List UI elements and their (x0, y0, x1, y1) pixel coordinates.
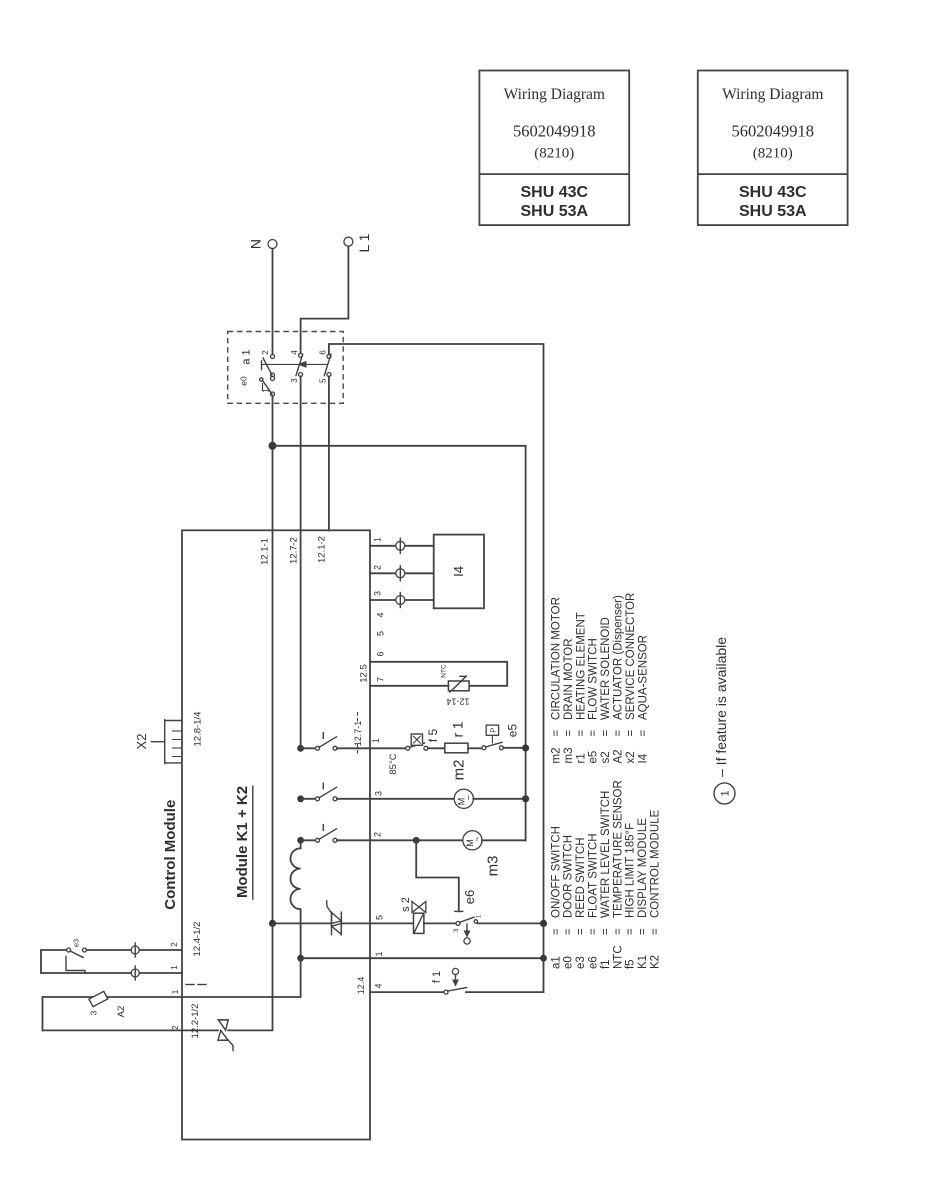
triac T2 on A2 return (218, 1020, 233, 1051)
aqua-sensor I4 box (434, 535, 484, 609)
svg-text:Wiring Diagram: Wiring Diagram (722, 86, 823, 103)
svg-text:=: = (600, 928, 612, 935)
svg-text:12.1-1: 12.1-1 (259, 538, 270, 565)
svg-text:6: 6 (376, 651, 386, 656)
node m3 row / e6 branch (413, 837, 420, 844)
wire row m3 (370, 839, 463, 841)
wire N down to A2 return row (228, 923, 272, 1030)
svg-text:2: 2 (261, 350, 270, 355)
net label 12.4 / pin 4 (row f1) (356, 977, 384, 995)
svg-text:A2: A2 (613, 749, 625, 763)
label Module K1 + K2 (234, 786, 253, 899)
svg-text:f5: f5 (625, 959, 637, 969)
reed switch e3 loop (41, 939, 182, 973)
terminal L1 (344, 233, 372, 252)
svg-text:HIGH LIMIT 185°F: HIGH LIMIT 185°F (625, 823, 637, 918)
svg-text:e6: e6 (462, 890, 477, 904)
wire a1 row to rail A (301, 957, 544, 959)
connector pin on wire 3 (396, 593, 405, 608)
svg-text:7: 7 (376, 677, 386, 682)
svg-text:3: 3 (90, 1010, 99, 1015)
door switch f1 (431, 968, 467, 994)
svg-text:CIRCULATION MOTOR: CIRCULATION MOTOR (551, 597, 563, 720)
svg-text:1: 1 (371, 738, 381, 743)
svg-text:1: 1 (170, 965, 179, 970)
svg-text:1: 1 (477, 914, 483, 918)
svg-text:r 1: r 1 (451, 722, 466, 738)
wire s2 to e6 contact (424, 922, 456, 924)
svg-text:12.7-2: 12.7-2 (289, 537, 300, 564)
svg-text:f1: f1 (600, 959, 612, 969)
node N s2 row (269, 920, 276, 927)
svg-text:SHU 53A: SHU 53A (739, 203, 807, 220)
net label 12.7-1 dashed (353, 712, 363, 755)
wire pin 3 to I4 (370, 599, 434, 601)
svg-text:m2: m2 (551, 748, 563, 764)
wire pole6 up and right to rail A (329, 344, 544, 992)
svg-text:f 5: f 5 (426, 729, 440, 743)
circulation motor m2 (451, 760, 474, 809)
svg-text:e3: e3 (575, 956, 587, 969)
float switch e6 contact (454, 914, 483, 944)
svg-text:a 1: a 1 (241, 349, 253, 364)
wire e6 contact to rail A (478, 922, 544, 924)
svg-text:12-14: 12-14 (446, 697, 469, 707)
wire m2 to rail B (473, 798, 525, 800)
wire m3 to rail B end (482, 839, 526, 841)
svg-text:WATER SOLENOID: WATER SOLENOID (600, 617, 612, 720)
svg-text:=: = (612, 928, 624, 935)
svg-text:3: 3 (454, 928, 460, 932)
connector pin on wire 1 (396, 538, 405, 553)
svg-text:m3: m3 (563, 748, 575, 764)
svg-text:12.8-1/4: 12.8-1/4 (193, 712, 204, 747)
actuator A2 loop (43, 997, 183, 1030)
svg-text:1: 1 (262, 388, 271, 393)
node junction N rail (269, 442, 277, 450)
svg-text:AQUA-SENSOR: AQUA-SENSOR (637, 635, 649, 720)
svg-text:=: = (637, 730, 649, 737)
svg-text:=: = (550, 928, 562, 935)
flow switch e5 (482, 724, 520, 750)
svg-text:12.4: 12.4 (356, 977, 366, 995)
a1 pole 2-1 contact (261, 350, 275, 377)
svg-text:12.2-1/2: 12.2-1/2 (190, 1004, 201, 1039)
thermistor NTC (441, 664, 470, 706)
wire r1 to e5 (468, 747, 482, 749)
svg-text:Wiring Diagram: Wiring Diagram (504, 86, 605, 103)
wire f5 to r1 (428, 747, 445, 749)
svg-text:12.7-1: 12.7-1 (353, 721, 363, 747)
svg-text:~: ~ (464, 795, 474, 800)
svg-text:FLOW SWITCH: FLOW SWITCH (588, 638, 600, 720)
svg-text:ON/OFF SWITCH: ON/OFF SWITCH (550, 826, 562, 918)
node relay common / a1 row (297, 955, 304, 962)
svg-text:m2: m2 (451, 760, 468, 781)
svg-text:=: = (625, 730, 637, 737)
actuator A2 symbol (89, 991, 127, 1017)
wire N down to switch a1 (272, 249, 274, 355)
mechanical coupling bar with arrow (262, 361, 328, 368)
switch a1 dashed enclosure (228, 332, 344, 404)
svg-text:e5: e5 (506, 724, 520, 738)
svg-text:=: = (575, 730, 587, 737)
wire pin 2 to I4 (370, 572, 434, 574)
svg-text:1: 1 (171, 989, 180, 994)
svg-text:e3: e3 (72, 939, 81, 947)
svg-text:=: = (600, 730, 612, 737)
wire NTC loop (370, 662, 507, 686)
thermal cutout f5 (388, 729, 440, 775)
control module box K2 (182, 530, 370, 1139)
relay contact K row 2 (297, 783, 370, 802)
svg-text:5602049918: 5602049918 (732, 121, 815, 140)
svg-text:I4: I4 (637, 753, 649, 763)
terminal N (248, 239, 278, 249)
svg-text:r1: r1 (575, 753, 587, 763)
svg-text:=: = (563, 928, 575, 935)
relay contact K row 3 (297, 825, 370, 844)
svg-text:FLOAT SWITCH: FLOAT SWITCH (588, 833, 600, 918)
e6 branch terminal tick (455, 910, 463, 912)
svg-text:=: = (588, 928, 600, 935)
svg-text:1: 1 (374, 951, 384, 956)
svg-text:e6: e6 (588, 956, 600, 969)
svg-text:(8210): (8210) (534, 145, 574, 161)
wire s2 row continues to module edge (341, 922, 413, 924)
svg-text:NTC: NTC (441, 664, 448, 678)
svg-text:12.4-1/2: 12.4-1/2 (192, 922, 203, 957)
svg-text:2: 2 (171, 1025, 180, 1030)
dashed marks (186, 984, 206, 986)
wire coil down to A2 feed, out left (182, 958, 301, 997)
svg-text:4: 4 (376, 612, 386, 617)
wire pin 1 to I4 (370, 545, 434, 547)
door switch e0 contact (239, 376, 275, 396)
node rail B row m2 (522, 795, 529, 802)
svg-text:4: 4 (290, 350, 299, 355)
svg-text:x2: x2 (625, 751, 637, 763)
svg-text:e5: e5 (588, 751, 600, 764)
node rail A a1 row (540, 955, 547, 962)
svg-text:SHU 43C: SHU 43C (521, 184, 589, 201)
a1 pole 4-3 contact (290, 350, 303, 383)
svg-text:f 1: f 1 (431, 971, 443, 983)
svg-text:12.1-2: 12.1-2 (316, 536, 327, 563)
title block 1 (Wiring Diagram SHU 43C / SHU 53A) (479, 71, 629, 226)
wire A2 return to module edge (182, 1029, 218, 1031)
svg-text:12.5: 12.5 (359, 664, 370, 683)
svg-text:e0: e0 (239, 376, 249, 386)
svg-text:SERVICE CONNECTOR: SERVICE CONNECTOR (625, 593, 637, 720)
legend right column (m2..I4 component names) (551, 593, 650, 764)
svg-text:~: ~ (472, 836, 482, 841)
svg-text:6: 6 (318, 350, 327, 355)
svg-text:CONTROL MODULE: CONTROL MODULE (650, 809, 662, 918)
wire row m2 (370, 798, 454, 800)
svg-text:K2: K2 (650, 955, 662, 969)
svg-text:4: 4 (374, 983, 384, 988)
triac T1 on s2 row (327, 901, 342, 935)
svg-text:a1: a1 (550, 956, 562, 969)
drain motor m3 (463, 831, 502, 877)
svg-text:=: = (637, 928, 649, 935)
svg-text:1: 1 (720, 790, 732, 796)
svg-text:K1: K1 (637, 955, 649, 969)
svg-text:2: 2 (373, 565, 383, 570)
svg-text:N: N (248, 239, 264, 249)
connector pin on e3 wire 2 (131, 943, 139, 957)
svg-text:SHU 43C: SHU 43C (739, 184, 807, 201)
svg-text:HEATING ELEMENT: HEATING ELEMENT (575, 612, 587, 720)
connector pin on wire 2 (396, 566, 405, 581)
wire junction to right rail B (273, 446, 526, 841)
svg-text:3: 3 (374, 791, 384, 796)
wire s2 row (273, 922, 332, 924)
svg-text:3: 3 (373, 591, 383, 596)
pin labels 1-7 (373, 537, 386, 682)
svg-text:A2: A2 (116, 1006, 127, 1018)
svg-text:DISPLAY MODULE: DISPLAY MODULE (637, 818, 649, 918)
svg-text:=: = (625, 928, 637, 935)
wire row f1 from module (370, 991, 444, 993)
svg-text:DRAIN MOTOR: DRAIN MOTOR (563, 638, 575, 720)
wire e6 branch down (416, 840, 459, 911)
wire N from e0 down into module (272, 396, 274, 923)
svg-text:=: = (563, 730, 575, 737)
svg-text:I4: I4 (451, 566, 466, 577)
svg-text:=: = (588, 730, 600, 737)
wire L1 down and jog to pole 4-3 (301, 246, 349, 353)
svg-text:TEMPERATURE SENSOR: TEMPERATURE SENSOR (612, 780, 624, 918)
svg-text:5: 5 (376, 631, 386, 636)
svg-text:P: P (489, 728, 498, 733)
heating element r1 (445, 722, 468, 753)
svg-text:ACTUATOR (Dispenser): ACTUATOR (Dispenser) (613, 595, 625, 720)
svg-text:X2: X2 (134, 734, 149, 750)
svg-text:(8210): (8210) (753, 145, 793, 161)
svg-text:3: 3 (290, 378, 299, 383)
svg-text:=: = (551, 730, 563, 737)
title block 2 (Wiring Diagram SHU 43C / SHU 53A) (698, 71, 848, 226)
svg-text:5602049918: 5602049918 (513, 121, 596, 140)
wire row r1 from module (370, 747, 406, 749)
note: (1) = If feature is available (713, 637, 735, 804)
wire f1 to rail A (466, 991, 544, 993)
svg-text:5: 5 (375, 915, 385, 920)
svg-text:=: = (613, 730, 625, 737)
node rail A s2 row (540, 920, 547, 927)
water solenoid s2 (400, 897, 426, 933)
svg-text:=: = (575, 928, 587, 935)
svg-text:2: 2 (170, 942, 179, 947)
svg-text:2: 2 (373, 832, 383, 837)
svg-text:REED SWITCH: REED SWITCH (575, 838, 587, 919)
legend left column (a1..K2 component names) (550, 780, 661, 969)
wire e5 to rail B (503, 747, 525, 749)
svg-text:NTC: NTC (612, 945, 624, 969)
svg-text:e0: e0 (563, 956, 575, 969)
svg-text:Control Module: Control Module (162, 800, 179, 910)
svg-text:L 1: L 1 (356, 233, 372, 252)
svg-text:1: 1 (373, 537, 383, 542)
svg-text:WATER LEVEL SWITCH: WATER LEVEL SWITCH (600, 791, 612, 918)
wire pole3 down into module (300, 377, 302, 749)
relay coil K1/K2 (290, 840, 300, 958)
svg-text:=: = (650, 928, 662, 935)
svg-text:SHU 53A: SHU 53A (521, 203, 589, 220)
svg-text:Module K1 + K2: Module K1 + K2 (234, 786, 251, 898)
connector X2 (134, 720, 182, 764)
connector pin on e3 wire 1 (131, 966, 139, 980)
svg-text:s2: s2 (600, 751, 612, 763)
relay contact K row 1 (297, 733, 370, 752)
svg-text:m3: m3 (485, 856, 502, 877)
wire pole5 down into module (ends at module edge) (328, 377, 330, 531)
wire pin 7 to NTC (370, 685, 448, 687)
svg-text:DOOR SWITCH: DOOR SWITCH (563, 835, 575, 918)
node rail B row r1 (522, 744, 529, 751)
svg-text:s 2: s 2 (400, 897, 412, 912)
svg-text:85°C: 85°C (388, 753, 399, 774)
a1 pole 6-5 contact (318, 350, 331, 383)
svg-text:5: 5 (318, 378, 327, 383)
svg-text:– If feature is available: – If feature is available (713, 637, 729, 777)
